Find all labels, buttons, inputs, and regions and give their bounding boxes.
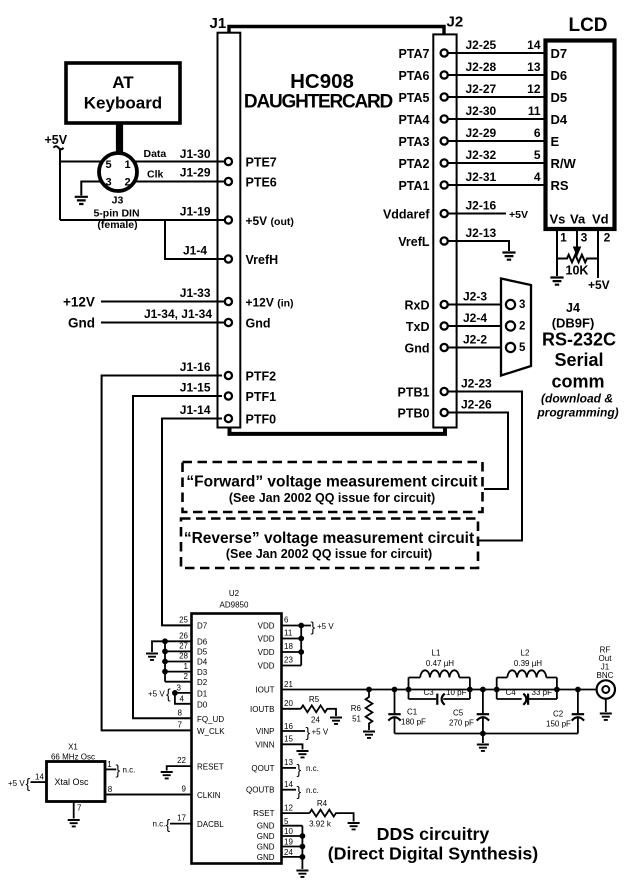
U2 pin RSET (12) xyxy=(253,804,309,819)
svg-text:VDD: VDD xyxy=(258,662,275,671)
svg-text:19: 19 xyxy=(284,838,293,847)
junction dot GND19 xyxy=(300,844,306,850)
svg-text:6: 6 xyxy=(534,126,541,140)
svg-text:QOUTB: QOUTB xyxy=(246,786,274,795)
svg-text:J2-31: J2-31 xyxy=(466,170,497,184)
wire PTF2 J1-16 down to W_CLK xyxy=(102,376,222,731)
svg-text:PTF1: PTF1 xyxy=(246,390,277,404)
svg-text:12: 12 xyxy=(527,82,541,96)
svg-text:AT: AT xyxy=(112,73,134,92)
svg-text:GND: GND xyxy=(257,822,275,831)
svg-text:PTB1: PTB1 xyxy=(398,386,430,400)
svg-text:D5: D5 xyxy=(197,648,208,657)
svg-text:R5: R5 xyxy=(309,695,320,704)
svg-text:+5 V: +5 V xyxy=(8,779,25,788)
LCD pin 1 stub Vs xyxy=(556,230,558,259)
svg-text:}: } xyxy=(311,619,316,635)
svg-text:D1: D1 xyxy=(197,689,208,698)
J1 pin +5V (out) xyxy=(225,214,294,228)
svg-text:51: 51 xyxy=(352,715,361,724)
svg-text:25: 25 xyxy=(179,616,188,625)
svg-text:GND: GND xyxy=(257,832,275,841)
svg-text:n.c.: n.c. xyxy=(153,820,166,829)
U2 pin D3 (1) xyxy=(165,662,208,677)
svg-text:GND: GND xyxy=(257,843,275,852)
svg-text:PTE6: PTE6 xyxy=(246,176,277,190)
svg-text:RSET: RSET xyxy=(253,809,274,818)
L1/C3 right node xyxy=(467,687,473,693)
svg-text:AD9850: AD9850 xyxy=(220,601,249,610)
svg-text:{: { xyxy=(166,686,171,702)
J2 pin PTA3 wire to LCD E xyxy=(398,126,545,149)
svg-text:D4: D4 xyxy=(197,658,208,667)
junction dot GND10 xyxy=(300,833,306,839)
ground at GND bus xyxy=(296,871,308,877)
svg-text:14: 14 xyxy=(284,780,293,789)
J2 pin PTA2 wire to LCD R/W xyxy=(398,148,545,171)
svg-text:PTA2: PTA2 xyxy=(398,157,429,171)
wire +5V down to J1-19 row xyxy=(59,149,61,221)
svg-text:PTA4: PTA4 xyxy=(398,113,429,127)
svg-text:Data: Data xyxy=(144,148,167,160)
svg-text:IOUT: IOUT xyxy=(255,686,274,695)
svg-text:PTF2: PTF2 xyxy=(246,370,277,384)
svg-text:66 MHz Osc: 66 MHz Osc xyxy=(51,752,95,761)
svg-text:PTE7: PTE7 xyxy=(246,156,277,170)
svg-text:10 pF: 10 pF xyxy=(446,688,467,697)
svg-text:4: 4 xyxy=(180,695,185,704)
inductor L1 xyxy=(409,649,470,700)
connector J2 box xyxy=(433,34,456,427)
svg-text:7: 7 xyxy=(77,804,82,813)
svg-text:8: 8 xyxy=(178,709,183,718)
svg-text:15: 15 xyxy=(284,735,293,744)
svg-text:22: 22 xyxy=(177,756,186,765)
svg-text:D7: D7 xyxy=(197,622,208,631)
svg-text:PTA3: PTA3 xyxy=(398,135,429,149)
svg-text:20: 20 xyxy=(284,699,293,708)
J2 pin PTB0 wire J2-26 to Forward box xyxy=(398,398,508,490)
svg-text:Gnd: Gnd xyxy=(246,317,271,331)
svg-text:14: 14 xyxy=(527,38,541,52)
svg-text:8: 8 xyxy=(108,785,113,794)
J1 pin PTF0 xyxy=(225,413,276,427)
junction dot D6 xyxy=(162,638,168,644)
IC U2 AD9850 box xyxy=(192,614,282,864)
svg-text:J1-16: J1-16 xyxy=(180,360,211,374)
svg-text:6: 6 xyxy=(284,616,289,625)
wire DIN pin 3 to ground xyxy=(81,182,101,196)
connector J1 box xyxy=(218,33,241,428)
svg-text:J2-16: J2-16 xyxy=(466,199,497,213)
svg-text:X1: X1 xyxy=(68,743,78,752)
LCD pin 2 stub Vd xyxy=(597,230,599,279)
svg-text:1: 1 xyxy=(124,159,130,171)
svg-text:23: 23 xyxy=(284,656,293,665)
svg-text:GND: GND xyxy=(257,853,275,862)
svg-text:J2-27: J2-27 xyxy=(466,82,497,96)
svg-text:J2-32: J2-32 xyxy=(466,148,497,162)
svg-text:24: 24 xyxy=(311,716,320,725)
J2 pin TxD wire J2-4 to DB9 pin 2 xyxy=(406,311,505,334)
J2 pin PTA4 wire to LCD D4 xyxy=(398,104,545,127)
svg-text:C5: C5 xyxy=(453,709,464,718)
svg-text:(DB9F): (DB9F) xyxy=(552,316,595,331)
ground at RESET xyxy=(161,772,173,778)
svg-text:D2: D2 xyxy=(197,678,208,687)
U2 pin CLKIN (9) xyxy=(105,785,221,801)
svg-text:5: 5 xyxy=(105,159,111,171)
svg-text:R/W: R/W xyxy=(551,156,577,171)
svg-text:18: 18 xyxy=(284,642,293,651)
svg-text:n.c.: n.c. xyxy=(306,786,319,795)
U2 pin FQ_UD (8) xyxy=(178,709,225,724)
svg-text:Keyboard: Keyboard xyxy=(84,94,162,113)
L2/C4 right node xyxy=(554,687,560,693)
J2 pin Gnd wire J2-2 to DB9 pin 5 xyxy=(405,333,506,356)
J2 pin PTA5 wire to LCD D5 xyxy=(398,82,545,105)
U2 pin VDD (18) xyxy=(258,642,302,657)
svg-text:VINP: VINP xyxy=(256,727,275,736)
svg-text:(download &: (download & xyxy=(541,392,613,406)
svg-text:J1-4: J1-4 xyxy=(183,244,207,258)
svg-text:E: E xyxy=(551,134,560,149)
U2 pin IOUT (21) main output wire xyxy=(255,680,596,695)
svg-text:{: { xyxy=(166,816,171,832)
svg-text:J2-29: J2-29 xyxy=(466,126,497,140)
U2 pin VINN (15) xyxy=(255,735,302,750)
svg-text:D0: D0 xyxy=(197,700,208,709)
potentiometer wiper arrow xyxy=(574,247,581,256)
svg-text:D7: D7 xyxy=(551,46,568,61)
svg-text:Xtal Osc: Xtal Osc xyxy=(54,777,89,787)
U2 pin RESET (22) xyxy=(167,756,224,772)
wire PTF1 J1-15 down to FQ_UD xyxy=(133,396,222,718)
svg-text:QOUT: QOUT xyxy=(251,764,274,773)
X1 pin 1 n.c. xyxy=(105,760,136,778)
U2 pin VDD (6) xyxy=(258,616,311,631)
J1 pin VrefH xyxy=(225,253,278,267)
svg-text:J1-34, J1-34: J1-34, J1-34 xyxy=(144,307,212,321)
svg-text:LCD: LCD xyxy=(568,15,607,36)
svg-text:24: 24 xyxy=(284,848,293,857)
svg-text:J2-23: J2-23 xyxy=(461,377,492,391)
svg-text:+5V (out): +5V (out) xyxy=(246,214,294,228)
svg-text:R4: R4 xyxy=(317,799,328,808)
junction dot D1 +5V xyxy=(172,690,178,696)
svg-text:13: 13 xyxy=(527,60,541,74)
svg-text:27: 27 xyxy=(179,642,188,651)
svg-text:3: 3 xyxy=(105,177,111,189)
wire Data DIN pin1 to J1-30 PTE7 xyxy=(135,161,225,163)
svg-text:1: 1 xyxy=(184,662,189,671)
J1 pin +12V (in) xyxy=(225,296,294,310)
svg-text:3.92 k: 3.92 k xyxy=(309,820,332,829)
svg-text:L1: L1 xyxy=(432,649,441,658)
ground at X1 pin 7 xyxy=(68,820,80,826)
capacitor C3 series xyxy=(409,688,470,705)
svg-text:J2-3: J2-3 xyxy=(463,290,487,304)
svg-text:J2: J2 xyxy=(447,14,464,31)
svg-text:9: 9 xyxy=(182,785,187,794)
U2 pin D2 (2) xyxy=(165,672,208,687)
resistor R6 shunt xyxy=(351,687,373,730)
svg-text:TxD: TxD xyxy=(406,320,430,334)
svg-text:VINN: VINN xyxy=(255,740,274,749)
ground at VrefL xyxy=(502,253,515,260)
capacitor C2 shunt xyxy=(546,687,584,734)
svg-text:D3: D3 xyxy=(197,668,208,677)
svg-text:2: 2 xyxy=(604,231,611,245)
svg-text:DACBL: DACBL xyxy=(197,820,224,829)
J1 pin PTE6 xyxy=(225,176,277,190)
capacitor C4 series xyxy=(497,688,557,705)
svg-text:J2-26: J2-26 xyxy=(461,398,492,412)
svg-text:n.c.: n.c. xyxy=(306,764,319,773)
J2 pin PTA1 wire to LCD RS xyxy=(398,170,545,193)
VDD bus vertical xyxy=(300,626,302,666)
J2 pin VrefL wire to ground xyxy=(398,226,509,251)
svg-text:5: 5 xyxy=(284,817,289,826)
svg-text:J2-30: J2-30 xyxy=(466,104,497,118)
U2 pin GND (19) xyxy=(257,838,303,852)
J1 pin PTF1 xyxy=(225,390,276,404)
svg-text:}: } xyxy=(297,761,302,777)
LCD module box xyxy=(546,41,615,230)
label RF Out J1 BNC xyxy=(597,646,614,681)
svg-text:Gnd: Gnd xyxy=(405,342,430,356)
svg-text:Vs: Vs xyxy=(550,212,566,227)
svg-text:10K: 10K xyxy=(566,264,589,278)
svg-text:3: 3 xyxy=(581,231,588,245)
svg-text:VDD: VDD xyxy=(258,622,275,631)
svg-text:IOUTB: IOUTB xyxy=(250,705,274,714)
U2 pin DACBL (17) xyxy=(170,814,224,830)
svg-text:21: 21 xyxy=(284,680,293,689)
J2 pin Vddaref wire to +5V xyxy=(383,199,528,222)
svg-text:PTA5: PTA5 xyxy=(398,91,429,105)
svg-text:DDS circuitry: DDS circuitry xyxy=(377,824,490,844)
U2 pin QOUT (13) n.c. xyxy=(251,758,296,773)
svg-text:Va: Va xyxy=(570,212,586,227)
svg-text:2: 2 xyxy=(519,321,525,333)
svg-text:+5V: +5V xyxy=(45,133,68,147)
AT Keyboard box xyxy=(66,63,180,123)
wire rail to ground xyxy=(482,734,484,744)
wire branch to VrefH J1-4 xyxy=(165,220,225,259)
svg-text:VrefL: VrefL xyxy=(398,235,430,249)
svg-text:J4: J4 xyxy=(566,301,580,315)
DB9 pin 3 xyxy=(506,300,515,309)
svg-text:RS: RS xyxy=(551,178,569,193)
svg-text:28: 28 xyxy=(179,652,188,661)
svg-text:PTA7: PTA7 xyxy=(398,47,429,61)
BNC connector J1 output xyxy=(597,680,615,712)
svg-text:0.47 µH: 0.47 µH xyxy=(426,659,454,668)
svg-text:VrefH: VrefH xyxy=(246,253,279,267)
svg-text:Serial: Serial xyxy=(554,350,603,370)
X1 pin 7 to ground xyxy=(74,802,82,819)
svg-text:+5 V: +5 V xyxy=(312,728,329,737)
svg-text:180 pF: 180 pF xyxy=(401,718,426,727)
capacitor C1 shunt xyxy=(388,687,426,734)
svg-text:C2: C2 xyxy=(553,710,564,719)
junction dot VDD6 xyxy=(298,623,304,629)
svg-text:14: 14 xyxy=(35,773,44,782)
connector J3 5-pin DIN circle xyxy=(99,153,137,191)
potentiometer 10K xyxy=(557,255,598,263)
svg-text:U2: U2 xyxy=(229,589,240,598)
svg-text:+12V: +12V xyxy=(63,295,95,310)
ground at Vs xyxy=(550,278,563,285)
U2 pin VDD (11) xyxy=(258,629,302,644)
junction dot rail xyxy=(480,731,486,737)
svg-text:2: 2 xyxy=(184,672,189,681)
LCD pin 3 stub Va xyxy=(576,230,578,248)
inductor L2 xyxy=(497,649,557,700)
U2 pin D0 (4) xyxy=(175,693,208,709)
wire Clk DIN pin2 to J1-29 PTE6 xyxy=(135,181,225,183)
svg-text:Vd: Vd xyxy=(592,212,609,227)
svg-text:J1-14: J1-14 xyxy=(180,403,211,417)
DB9 pin 5 xyxy=(506,343,515,352)
junction dot GND24 xyxy=(300,854,306,860)
svg-text:J1-30: J1-30 xyxy=(180,147,211,161)
svg-text:J2-25: J2-25 xyxy=(466,38,497,52)
svg-text:BNC: BNC xyxy=(597,671,614,680)
U2 pin D6 (26) xyxy=(165,632,208,647)
svg-text:1: 1 xyxy=(560,231,567,245)
ground at R5 xyxy=(330,718,342,724)
L2/C4 parallel tank left node xyxy=(494,687,500,693)
svg-text:}: } xyxy=(306,724,311,740)
svg-text:RS-232C: RS-232C xyxy=(542,330,616,350)
svg-text:11: 11 xyxy=(528,104,541,118)
J1 pin Gnd xyxy=(225,317,271,331)
svg-text:13: 13 xyxy=(284,758,293,767)
svg-text:270 pF: 270 pF xyxy=(449,719,474,728)
svg-text:+12V (in): +12V (in) xyxy=(246,296,294,310)
svg-text:26: 26 xyxy=(179,632,188,641)
svg-text:3: 3 xyxy=(177,684,182,693)
svg-text:C3: C3 xyxy=(424,688,435,697)
svg-text:VDD: VDD xyxy=(258,648,275,657)
svg-text:VDD: VDD xyxy=(258,635,275,644)
svg-text:J1-29: J1-29 xyxy=(180,166,211,180)
svg-text:programming): programming) xyxy=(536,406,618,420)
GND bus vertical to ground xyxy=(301,826,303,869)
U2 pin D4 (28) xyxy=(165,652,208,667)
J1 pin PTF2 xyxy=(225,370,276,384)
svg-text:0.39 µH: 0.39 µH xyxy=(514,659,542,668)
svg-text:C4: C4 xyxy=(506,688,517,697)
svg-text:HC908: HC908 xyxy=(290,70,354,93)
U2 pin GND (10) xyxy=(257,827,303,841)
svg-text:J2-2: J2-2 xyxy=(463,333,487,347)
U2 pin VDD (23) xyxy=(258,656,302,671)
svg-text:7: 7 xyxy=(178,721,183,730)
junction dot VDD11 xyxy=(298,636,304,642)
svg-text:+5 V: +5 V xyxy=(317,622,334,631)
svg-text:comm: comm xyxy=(551,372,604,392)
DB9 pin 2 xyxy=(506,321,515,330)
svg-text:J1-15: J1-15 xyxy=(180,381,211,395)
U2 pin GND (5) xyxy=(257,817,303,831)
resistor R5 xyxy=(301,705,336,716)
svg-text:RxD: RxD xyxy=(404,299,429,313)
svg-text:+5V: +5V xyxy=(588,278,610,292)
junction dot D5 xyxy=(162,649,168,655)
svg-text:“Forward” voltage measurement: “Forward” voltage measurement circuit xyxy=(186,474,477,491)
svg-text:+5 V: +5 V xyxy=(148,690,165,699)
svg-text:D6: D6 xyxy=(197,638,208,647)
junction dot D3 xyxy=(162,669,168,675)
svg-text:J2-13: J2-13 xyxy=(466,226,497,240)
J2 pin RxD wire J2-3 to DB9 pin 3 xyxy=(404,290,505,313)
X1 pin 14 +5V xyxy=(8,773,47,792)
svg-text:Vddaref: Vddaref xyxy=(383,208,430,222)
svg-text:J2-28: J2-28 xyxy=(466,60,497,74)
U2 pin D5 (27) xyxy=(165,642,208,657)
Forward voltage measurement dashed box xyxy=(183,462,483,512)
svg-text:16: 16 xyxy=(284,722,293,731)
U2 pin D1 (3) xyxy=(175,684,208,699)
svg-text:1: 1 xyxy=(107,760,112,769)
svg-text:PTB0: PTB0 xyxy=(398,407,430,421)
ground at R4 xyxy=(348,823,360,829)
svg-text:Gnd: Gnd xyxy=(68,316,95,331)
ground at filter rail xyxy=(477,745,489,751)
U2 pin QOUTB (14) n.c. xyxy=(246,780,296,795)
U2 pin GND (24) xyxy=(257,848,303,862)
svg-text:D4: D4 xyxy=(551,112,568,127)
svg-text:5-pin DIN: 5-pin DIN xyxy=(93,208,139,220)
svg-text:PTA1: PTA1 xyxy=(398,179,429,193)
svg-text:}: } xyxy=(116,762,121,778)
ground at data bus xyxy=(146,654,158,660)
svg-text:R6: R6 xyxy=(351,704,362,713)
svg-text:D6: D6 xyxy=(551,68,568,83)
junction dot VDD18 xyxy=(298,649,304,655)
wire J1-19 +5V(out) xyxy=(60,219,225,221)
svg-text:33 pF: 33 pF xyxy=(532,688,553,697)
U2 pin VINP (16) xyxy=(256,722,305,736)
svg-text:2: 2 xyxy=(124,177,130,189)
svg-text:L2: L2 xyxy=(521,649,530,658)
svg-text:PTA6: PTA6 xyxy=(398,69,429,83)
svg-text:(See Jan 2002 QQ issue for cir: (See Jan 2002 QQ issue for circuit) xyxy=(226,547,432,561)
X1 pin 8 output wire to CLKIN xyxy=(105,785,192,795)
svg-text:RESET: RESET xyxy=(197,763,224,772)
data bus vertical D6-D2 xyxy=(164,641,166,681)
wire D6 bus to ground xyxy=(152,641,165,652)
svg-text:CLKIN: CLKIN xyxy=(197,791,221,800)
svg-text:FQ_UD: FQ_UD xyxy=(197,715,224,724)
junction dot D4 xyxy=(162,659,168,665)
L1/C3 parallel tank left node xyxy=(406,687,412,693)
J1 pin PTE7 xyxy=(225,156,277,170)
+5V supply symbol top-left xyxy=(45,133,68,149)
svg-text:DAUGHTERCARD: DAUGHTERCARD xyxy=(244,92,393,113)
svg-text:4: 4 xyxy=(534,170,541,184)
svg-text:17: 17 xyxy=(177,814,186,823)
filter ground rail xyxy=(395,733,578,735)
J2 pin PTA7 wire to LCD D7 xyxy=(398,38,545,61)
U2 pin W_CLK (7) xyxy=(178,721,226,736)
wire PTF0 J1-14 down to D7 pin25 xyxy=(162,419,222,626)
svg-text:J1-33: J1-33 xyxy=(180,286,211,300)
ground at BNC xyxy=(600,714,612,720)
